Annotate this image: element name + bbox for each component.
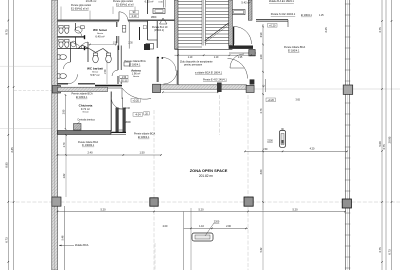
svg-text:5.46: 5.46 [62,235,65,240]
svg-text:Centrala termica: Centrala termica [77,119,95,122]
svg-text:3.65: 3.65 [296,99,301,101]
svg-text:201.82 m²: 201.82 m² [199,174,213,178]
svg-text:5.20: 5.20 [198,207,204,211]
svg-text:5.42 m²: 5.42 m² [241,0,250,4]
svg-text:(150/4.1): (150/4.1) [154,29,164,32]
svg-text:13.26 m²: 13.26 m² [86,0,97,3]
svg-text:E! 180/4.1: E! 180/4.1 [129,63,141,66]
svg-text:280C: 280C [151,16,157,19]
svg-text:2200: 2200 [214,220,220,223]
svg-text:9.75: 9.75 [5,29,9,35]
svg-text:Gresie: Gresie [82,112,89,114]
svg-text:8.85: 8.85 [5,162,9,168]
svg-text:6.40 m²: 6.40 m² [95,35,104,39]
svg-text:1.62: 1.62 [63,173,66,178]
svg-text:4.75: 4.75 [378,27,382,33]
svg-text:1.50: 1.50 [139,151,145,155]
svg-text:ZONA OPEN SPACE: ZONA OPEN SPACE [190,168,228,173]
svg-text:1.50: 1.50 [122,77,127,79]
svg-text:1.10: 1.10 [199,225,204,228]
svg-text:pentru persoane: pentru persoane [184,63,203,66]
svg-text:6.73: 6.73 [388,249,392,255]
svg-text:6.73: 6.73 [5,237,9,243]
svg-text:5.57 m²: 5.57 m² [90,73,99,77]
svg-text:4.75: 4.75 [378,247,382,253]
svg-text:20.95: 20.95 [388,136,392,143]
svg-text:E! 180/4.1: E! 180/4.1 [288,49,300,52]
svg-text:1.10: 1.10 [214,56,219,59]
svg-text:Perete 6.4 E! 240/4.1: Perete 6.4 E! 240/4.1 [271,12,296,16]
svg-text:2.60: 2.60 [260,54,263,59]
svg-text:5.20: 5.20 [292,207,298,211]
svg-text:E1 60/4x2 s/l s/l: E1 60/4x2 s/l s/l [71,7,89,10]
svg-text:1.70: 1.70 [63,142,66,147]
svg-text:1.50: 1.50 [104,69,107,74]
svg-text:3.35: 3.35 [10,147,14,153]
svg-text:WC femei: WC femei [93,28,107,32]
svg-text:-4.04: -4.04 [135,113,141,116]
svg-text:E1 60/4x2 s/l s/l: E1 60/4x2 s/l s/l [116,4,134,7]
svg-text:4.20: 4.20 [310,148,315,151]
svg-text:+0.20: +0.20 [268,99,275,102]
svg-text:2.00: 2.00 [163,225,168,228]
svg-text:Perete E 4 E! 240/4.1: Perete E 4 E! 240/4.1 [203,79,227,82]
svg-text:4.75: 4.75 [382,144,386,150]
svg-text:+0.20: +0.20 [269,24,276,27]
svg-text:3.25: 3.25 [324,27,328,33]
svg-text:1.55: 1.55 [113,42,118,44]
svg-text:2.40: 2.40 [87,151,93,155]
svg-text:2.85: 2.85 [63,109,66,114]
svg-text:+0.66: +0.66 [124,108,130,110]
svg-text:6.15 m²: 6.15 m² [145,0,154,4]
svg-text:Zidarie B.A E1 180/4.1: Zidarie B.A E1 180/4.1 [269,0,294,3]
svg-text:E! 180/4.1: E! 180/4.1 [76,96,88,99]
svg-text:2.00: 2.00 [226,225,231,228]
svg-text:E! 180/4.1: E! 180/4.1 [301,14,312,17]
svg-text:2.10: 2.10 [132,15,137,18]
svg-text:D. 1900/4.1: D. 1900/4.1 [82,144,95,147]
svg-text:2000: 2000 [125,121,131,124]
svg-text:Perete gips carton: Perete gips carton [71,4,92,7]
svg-text:1.50: 1.50 [263,148,268,151]
svg-text:1.35: 1.35 [238,56,243,59]
svg-text:E! 180/4.1: E! 180/4.1 [138,136,150,139]
svg-text:+0.20: +0.20 [133,99,140,102]
svg-text:9.72 m²: 9.72 m² [81,107,90,111]
svg-text:1.10: 1.10 [188,56,193,59]
svg-text:WC barbati: WC barbati [87,67,103,71]
svg-text:Gresie: Gresie [133,76,140,78]
svg-text:0.90: 0.90 [260,32,263,37]
svg-text:5.20: 5.20 [100,207,106,211]
svg-text:2.30: 2.30 [128,42,133,44]
svg-text:1.25: 1.25 [319,14,324,17]
svg-text:3.60: 3.60 [260,169,263,174]
svg-text:a zidarie BCA E! 180/4.1: a zidarie BCA E! 180/4.1 [195,72,223,75]
svg-text:E0 15: E0 15 [121,80,128,82]
svg-text:5.08: 5.08 [378,141,382,147]
svg-text:5.32: 5.32 [260,247,263,252]
svg-text:Zidarie BCA: Zidarie BCA [75,244,89,247]
svg-text:2.73: 2.73 [260,108,263,113]
svg-text:2200: 2200 [267,140,273,143]
